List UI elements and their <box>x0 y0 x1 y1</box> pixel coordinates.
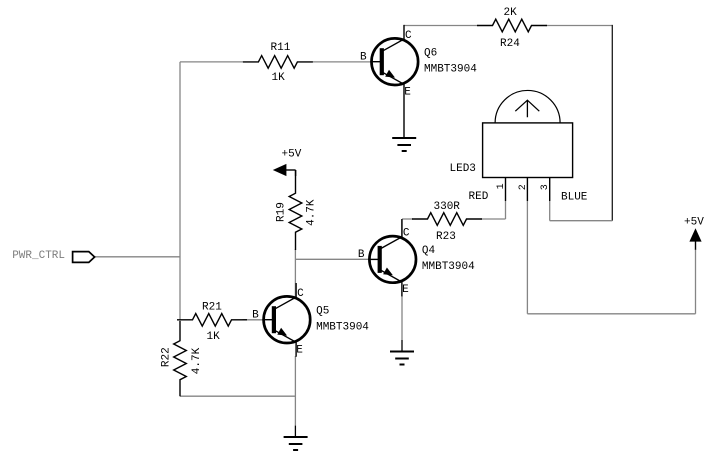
wire: PWR_CTRL to bus <box>95 256 180 258</box>
svg-text:C: C <box>405 30 412 42</box>
svg-text:BLUE: BLUE <box>561 192 588 204</box>
wire: LED pin 1 vertical <box>505 201 507 219</box>
wire: Q6 collector to R24 <box>404 25 479 27</box>
wire: Q4 emitter down <box>401 296 403 340</box>
wire: LED pin 2 bottom horizontal <box>527 313 695 315</box>
wire: up to +5V arrow <box>695 249 697 314</box>
svg-text:Q4: Q4 <box>422 245 436 257</box>
svg-text:2: 2 <box>518 184 529 190</box>
wire: LED pin 3 horizontal <box>550 220 613 222</box>
wire: R23 to LED pin 1 <box>480 218 505 220</box>
svg-text:LED3: LED3 <box>450 163 476 175</box>
svg-text:E: E <box>402 284 409 296</box>
transistor Q5 <box>262 283 310 357</box>
resistor R22 <box>174 321 187 396</box>
svg-text:1: 1 <box>496 183 507 189</box>
svg-text:R24: R24 <box>500 38 520 50</box>
wire: mid junction to Q4 base <box>295 258 370 260</box>
svg-text:B: B <box>252 310 259 322</box>
transistor Q4 <box>368 219 416 296</box>
pin 3 of LED3 <box>540 178 551 202</box>
svg-text:R21: R21 <box>202 302 222 314</box>
svg-text:MMBT3904: MMBT3904 <box>316 321 369 333</box>
svg-text:C: C <box>297 288 304 300</box>
resistor R24 <box>477 19 547 32</box>
resistor R21 <box>177 314 247 327</box>
+5V power symbol (above R19) <box>273 164 296 176</box>
svg-text:C: C <box>403 228 410 240</box>
svg-text:Q6: Q6 <box>424 48 437 60</box>
wire: R21 to Q5 base <box>243 319 264 321</box>
svg-text:3: 3 <box>540 184 551 190</box>
wire: left vertical bus from R11 net down to bottom net <box>179 62 181 321</box>
svg-text:E: E <box>404 87 411 99</box>
svg-text:E: E <box>296 345 303 357</box>
svg-text:R22: R22 <box>161 347 173 367</box>
wire: LED pin 3 vertical <box>549 201 551 221</box>
wire: bottom net R22 to Q5 emitter <box>180 395 295 397</box>
ground (below Q5) <box>284 437 308 450</box>
svg-text:RED: RED <box>469 191 489 203</box>
pin 1 of LED3 <box>496 178 507 202</box>
ground (below Q4) <box>390 352 414 365</box>
transistor Q6 <box>370 25 418 97</box>
svg-text:B: B <box>358 249 365 261</box>
net flag PWR_CTRL <box>73 252 95 263</box>
svg-text:+5V: +5V <box>684 216 704 228</box>
wire: LED pin 2 down <box>526 201 528 314</box>
wire: right vertical drop to LED pin 3 net <box>611 25 613 221</box>
svg-text:+5V: +5V <box>282 149 302 161</box>
wire: R24 to right corner <box>546 25 613 27</box>
svg-text:4.7K: 4.7K <box>306 199 318 226</box>
svg-text:R23: R23 <box>436 231 456 243</box>
pin 2 of LED3 <box>518 178 529 202</box>
svg-text:MMBT3904: MMBT3904 <box>422 261 475 273</box>
resistor R19 <box>289 170 302 250</box>
wire: Q4 ground stem <box>401 340 403 352</box>
wire: R19 bottom to Q5 collector junction <box>294 249 296 297</box>
wire: Q6 emitter down to ground <box>403 97 405 138</box>
svg-text:1K: 1K <box>207 331 221 343</box>
svg-text:4.7K: 4.7K <box>191 347 203 374</box>
wire: Q4 collector vertical <box>401 219 403 237</box>
svg-text:B: B <box>360 52 367 64</box>
wire: Q5 emitter down <box>294 356 296 426</box>
wire: Q5 ground stem <box>294 426 296 437</box>
resistor R23 <box>412 213 482 226</box>
wire: R23 left to Q4 collector corner <box>402 218 413 220</box>
ground (below Q6) <box>392 138 416 151</box>
svg-text:Q5: Q5 <box>316 306 329 318</box>
svg-text:R11: R11 <box>271 42 291 54</box>
resistor R11 <box>243 56 313 69</box>
wire: R11 to Q6 base <box>313 61 372 63</box>
svg-text:PWR_CTRL: PWR_CTRL <box>12 250 65 262</box>
LED LED3 body <box>483 90 573 177</box>
+5V power symbol (right) <box>689 228 701 250</box>
svg-text:MMBT3904: MMBT3904 <box>424 63 477 75</box>
svg-text:2K: 2K <box>504 7 518 19</box>
svg-text:330R: 330R <box>434 201 461 213</box>
svg-text:1K: 1K <box>272 72 286 84</box>
wire: bus to R11 <box>180 61 243 63</box>
svg-text:R19: R19 <box>276 202 288 222</box>
